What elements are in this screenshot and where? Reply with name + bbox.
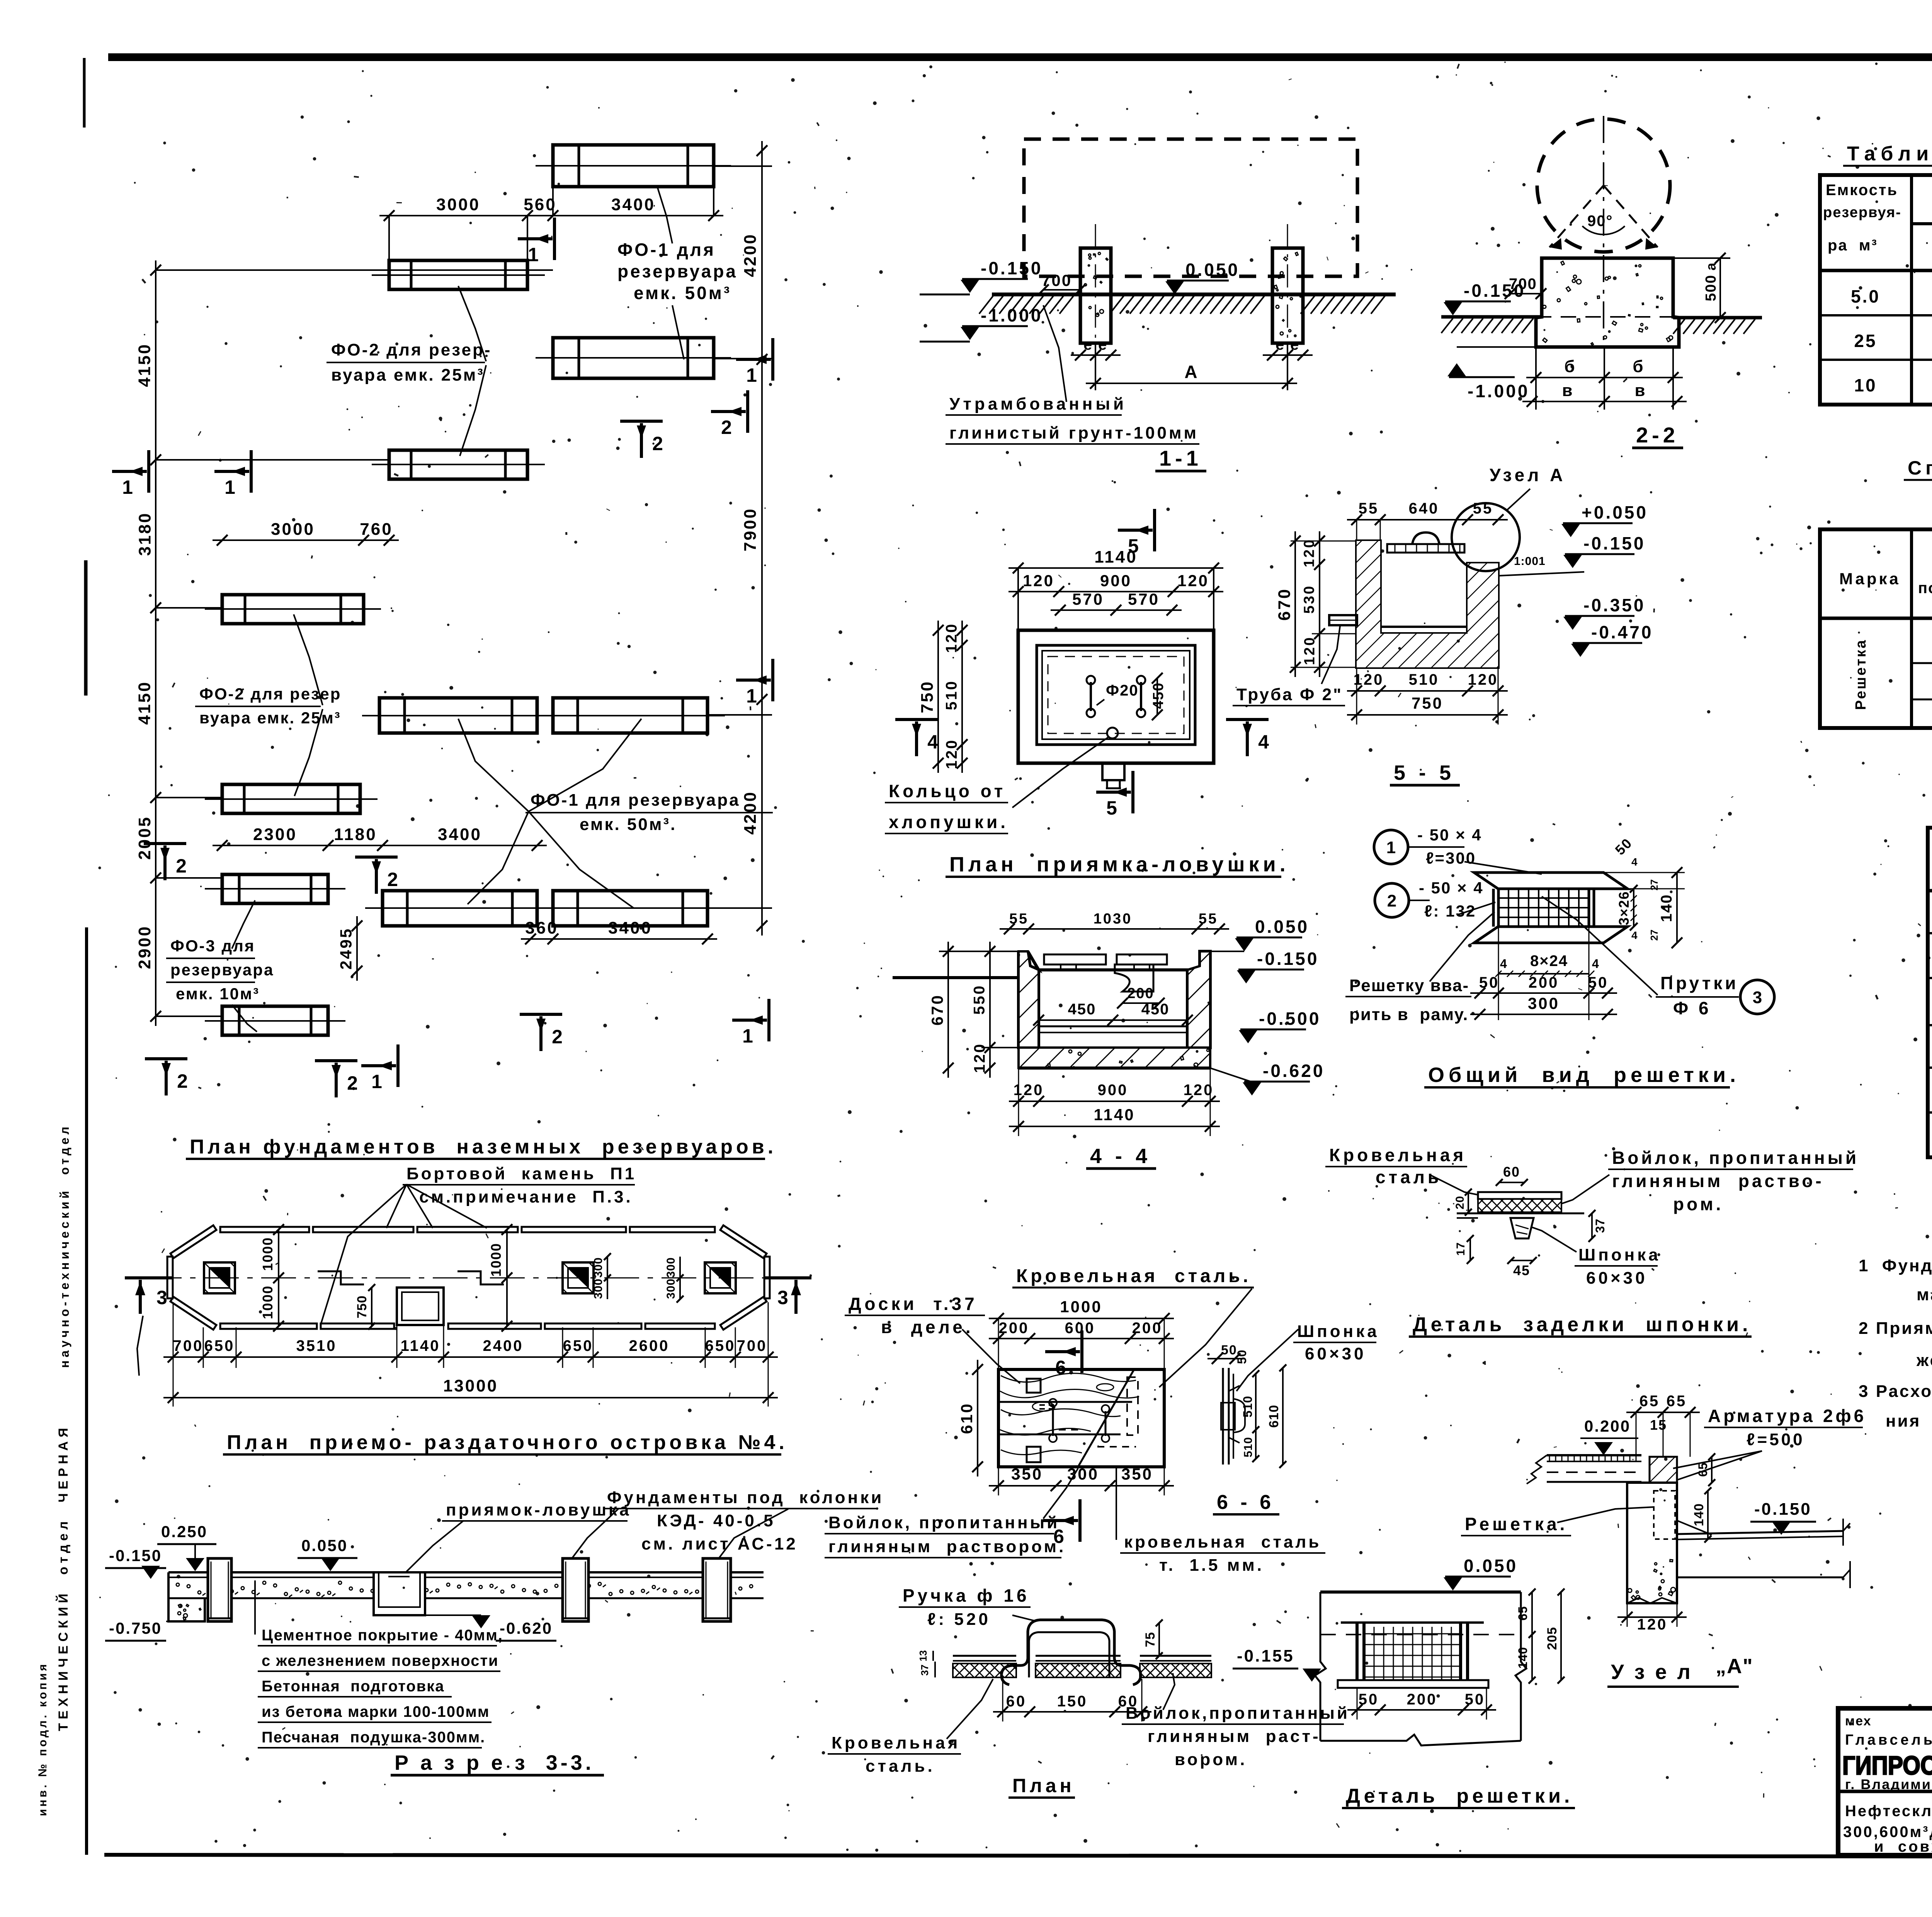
svg-text:ГИПРОСЕЛЬХОЗПРОМ: ГИПРОСЕЛЬХОЗПРОМ	[1842, 1751, 1932, 1780]
svg-text:емк. 50м³: емк. 50м³	[634, 283, 731, 303]
svg-text:900: 900	[1100, 572, 1132, 590]
svg-text:205: 205	[1545, 1627, 1560, 1650]
svg-text:3000: 3000	[271, 520, 315, 539]
svg-text:3: 3	[777, 1287, 788, 1308]
svg-text:Ручка ф 16: Ручка ф 16	[903, 1585, 1030, 1606]
svg-text:б: б	[1564, 357, 1576, 376]
svg-text:1140: 1140	[401, 1337, 440, 1354]
svg-text:13000: 13000	[443, 1376, 498, 1395]
svg-text:мех: мех	[1845, 1714, 1872, 1728]
svg-text:120: 120	[943, 623, 960, 653]
svg-text:2400: 2400	[483, 1337, 524, 1354]
svg-text:Арматура 2ф6: Арматура 2ф6	[1708, 1406, 1866, 1426]
svg-text:530: 530	[1301, 585, 1318, 614]
svg-text:глиняным раствором.: глиняным раствором.	[828, 1537, 1066, 1556]
svg-text:6 - 6: 6 - 6	[1217, 1491, 1274, 1514]
svg-text:570: 570	[1128, 590, 1160, 608]
svg-text:45: 45	[1513, 1262, 1530, 1278]
svg-text:Решетку вва-: Решетку вва-	[1349, 976, 1469, 995]
svg-text:37: 37	[1593, 1218, 1607, 1233]
svg-text:5.0: 5.0	[1851, 286, 1880, 306]
svg-text:ФО-3 для: ФО-3 для	[170, 937, 255, 955]
svg-text:с железнением поверхности: с железнением поверхности	[262, 1652, 499, 1669]
svg-text:г. Владимир: г. Владимир	[1845, 1776, 1932, 1792]
svg-text:в деле.: в деле.	[881, 1317, 974, 1337]
svg-text:600: 600	[1065, 1320, 1095, 1337]
svg-text:560: 560	[524, 195, 556, 214]
svg-text:е: е	[1083, 336, 1092, 353]
svg-text:-0.150: -0.150	[1754, 1500, 1812, 1519]
svg-text:2: 2	[552, 1026, 563, 1048]
svg-text:-0.620: -0.620	[1263, 1061, 1325, 1081]
svg-text:0.050: 0.050	[1464, 1556, 1518, 1576]
svg-text:вором.: вором.	[1175, 1750, 1247, 1769]
svg-text:2300: 2300	[253, 825, 297, 844]
svg-text:1000: 1000	[488, 1243, 504, 1277]
svg-text:140: 140	[1516, 1647, 1530, 1669]
svg-text:120: 120	[1468, 671, 1498, 688]
svg-text:3000: 3000	[436, 195, 480, 214]
svg-text:13: 13	[917, 1650, 929, 1662]
svg-text:2: 2	[1387, 891, 1396, 910]
svg-text:200: 200	[1132, 1320, 1163, 1337]
svg-text:510: 510	[1242, 1437, 1255, 1457]
svg-text:1: 1	[746, 364, 757, 386]
svg-text:кровельная сталь: кровельная сталь	[1124, 1533, 1321, 1551]
svg-text:У з е л: У з е л	[1611, 1660, 1693, 1684]
svg-text:50: 50	[1465, 1691, 1485, 1708]
svg-text:Решетка: Решетка	[1853, 639, 1869, 710]
svg-text:емк. 50м³.: емк. 50м³.	[580, 815, 677, 834]
svg-text:120: 120	[1184, 1082, 1214, 1099]
svg-text:резервуара: резервуара	[170, 961, 274, 979]
svg-text:120: 120	[1177, 572, 1209, 590]
svg-text:8×24: 8×24	[1530, 953, 1568, 970]
svg-text:760: 760	[360, 520, 393, 539]
svg-text:2495: 2495	[337, 927, 355, 970]
svg-text:50: 50	[1479, 974, 1500, 991]
svg-text:2600: 2600	[629, 1337, 670, 1354]
svg-text:см. лист АС-12: см. лист АС-12	[641, 1534, 798, 1553]
svg-text:Бортовой камень П1: Бортовой камень П1	[406, 1164, 636, 1183]
svg-text:570: 570	[1072, 590, 1104, 608]
svg-text:Спецификация стали на одну: Спецификация стали на одну решетку.	[1908, 457, 1932, 479]
svg-text:60×30: 60×30	[1586, 1269, 1648, 1288]
svg-text:120: 120	[1637, 1616, 1668, 1633]
svg-text:-0.150: -0.150	[1257, 949, 1319, 969]
svg-text:е: е	[1276, 336, 1284, 353]
svg-text:50: 50	[1588, 974, 1609, 991]
svg-text:120: 120	[1023, 572, 1054, 590]
svg-text:-1.000: -1.000	[981, 305, 1043, 325]
svg-text:4150: 4150	[135, 343, 154, 387]
svg-text:из бетона марки 100-100мм: из бетона марки 100-100мм	[262, 1703, 490, 1720]
svg-text:200: 200	[999, 1320, 1029, 1337]
svg-text:750: 750	[1412, 694, 1443, 712]
svg-text:610: 610	[957, 1402, 976, 1434]
svg-text:Кровельная сталь.: Кровельная сталь.	[1016, 1266, 1251, 1286]
svg-text:650: 650	[563, 1337, 594, 1354]
svg-text:700: 700	[173, 1337, 204, 1354]
svg-text:ТЕХНИЧЕСКИЙ отдел ЧЕРНАЯ: ТЕХНИЧЕСКИЙ отдел ЧЕРНАЯ	[56, 1424, 71, 1731]
svg-text:120: 120	[1302, 636, 1318, 665]
svg-text:План: План	[1012, 1775, 1075, 1796]
svg-text:-0.155: -0.155	[1237, 1647, 1294, 1665]
svg-text:Узел А: Узел А	[1490, 465, 1566, 485]
svg-text:Труба Ф 2": Труба Ф 2"	[1236, 685, 1343, 704]
svg-text:Бетонная подготовка: Бетонная подготовка	[262, 1678, 444, 1695]
svg-text:3180: 3180	[136, 512, 155, 556]
svg-text:55: 55	[1009, 911, 1029, 927]
svg-text:300: 300	[592, 1278, 605, 1299]
svg-text:Войлок, пропитанный: Войлок, пропитанный	[828, 1513, 1060, 1532]
svg-text:610: 610	[1267, 1405, 1281, 1428]
svg-text:140: 140	[1692, 1503, 1706, 1526]
svg-text:ФО-2 для резер-: ФО-2 для резер-	[331, 340, 492, 359]
svg-text:и совхозов.: и совхозов.	[1874, 1838, 1932, 1855]
svg-text:глиняным раст-: глиняным раст-	[1148, 1727, 1321, 1746]
svg-text:А: А	[1184, 362, 1199, 382]
svg-text:4: 4	[1592, 957, 1599, 971]
svg-text:2900: 2900	[135, 925, 154, 969]
svg-text:3: 3	[1753, 988, 1762, 1007]
svg-text:-0.750: -0.750	[109, 1619, 162, 1637]
svg-text:4: 4	[1500, 957, 1507, 971]
svg-text:+0.050: +0.050	[1582, 502, 1648, 522]
svg-text:Войлок,пропитанный: Войлок,пропитанный	[1126, 1704, 1350, 1723]
svg-text:Нефтесклад емкостью: Нефтесклад емкостью	[1845, 1803, 1932, 1820]
svg-text:510: 510	[1409, 671, 1439, 688]
svg-text:Емкость: Емкость	[1826, 182, 1898, 199]
svg-text:5: 5	[1128, 535, 1139, 557]
svg-text:-0.500: -0.500	[1259, 1009, 1321, 1029]
svg-text:ния приемо- раздаточной пло: ния приемо- раздаточной площадки составл…	[1886, 1412, 1932, 1431]
svg-text:65: 65	[1696, 1462, 1710, 1477]
svg-text:1: 1	[528, 244, 539, 265]
svg-text:-0.150: -0.150	[109, 1546, 162, 1565]
svg-text:План фундаментов наземных ре: План фундаментов наземных резервуаров.	[190, 1136, 777, 1158]
svg-text:50: 50	[1235, 1349, 1249, 1364]
svg-text:6: 6	[1055, 1357, 1066, 1378]
svg-text:Кровельная: Кровельная	[832, 1733, 960, 1752]
svg-text:Шпонка: Шпонка	[1578, 1245, 1661, 1264]
svg-text:2: 2	[347, 1072, 358, 1094]
svg-text:Фундаменты под колонки: Фундаменты под колонки	[607, 1488, 884, 1507]
svg-text:0.050: 0.050	[301, 1536, 348, 1555]
svg-text:-0.350: -0.350	[1583, 595, 1645, 615]
svg-text:55: 55	[1199, 911, 1218, 927]
svg-text:е: е	[1098, 336, 1107, 353]
svg-text:в: в	[1562, 381, 1574, 400]
svg-text:а: а	[1703, 262, 1719, 270]
svg-text:50: 50	[1359, 1691, 1379, 1708]
svg-text:ФО-1 для резервуара: ФО-1 для резервуара	[531, 791, 740, 810]
svg-text:350: 350	[1011, 1465, 1043, 1483]
svg-text:КЭД- 40-0.5: КЭД- 40-0.5	[657, 1511, 776, 1530]
svg-text:Таблица: Таблица	[1847, 143, 1932, 165]
svg-text:-0.620: -0.620	[500, 1619, 553, 1637]
svg-text:750: 750	[355, 1295, 369, 1318]
svg-text:670: 670	[1275, 588, 1294, 621]
svg-text:е: е	[1290, 336, 1299, 353]
svg-text:1: 1	[742, 1025, 753, 1047]
svg-text:750: 750	[918, 680, 937, 713]
svg-text:90°: 90°	[1587, 213, 1613, 230]
svg-text:сталь.: сталь.	[866, 1757, 935, 1776]
svg-text:1000: 1000	[1060, 1298, 1102, 1316]
svg-text:3400: 3400	[611, 195, 655, 214]
svg-text:1030: 1030	[1094, 911, 1133, 927]
svg-text:640: 640	[1409, 500, 1439, 517]
svg-text:17: 17	[1454, 1242, 1467, 1255]
svg-text:4: 4	[1258, 731, 1269, 753]
svg-text:650: 650	[204, 1337, 235, 1354]
svg-text:Кольцо от: Кольцо от	[889, 781, 1006, 801]
svg-text:1:001: 1:001	[1514, 555, 1546, 568]
svg-text:65: 65	[1667, 1393, 1687, 1410]
svg-text:1180: 1180	[334, 825, 377, 844]
svg-text:- 50 × 4: - 50 × 4	[1419, 879, 1484, 897]
svg-text:-0.150: -0.150	[981, 258, 1043, 278]
svg-text:450: 450	[1068, 1001, 1096, 1018]
svg-text:10: 10	[1854, 375, 1877, 395]
svg-text:1140: 1140	[1094, 1106, 1135, 1124]
svg-text:140: 140	[1658, 894, 1675, 922]
svg-text:0.200: 0.200	[1584, 1417, 1631, 1435]
svg-text:железнением.: железнением.	[1916, 1351, 1932, 1370]
svg-text:1000: 1000	[260, 1237, 276, 1271]
svg-text:7900: 7900	[741, 507, 760, 551]
svg-text:120: 120	[1301, 538, 1318, 567]
svg-text:см.примечание П.3.: см.примечание П.3.	[419, 1187, 633, 1206]
svg-text:700: 700	[737, 1337, 767, 1354]
svg-text:ℓ=300: ℓ=300	[1426, 849, 1476, 867]
svg-text:Деталь решетки.: Деталь решетки.	[1346, 1785, 1573, 1807]
svg-text:1: 1	[746, 685, 757, 707]
svg-text:27: 27	[1648, 930, 1660, 941]
svg-text:в: в	[1634, 381, 1646, 400]
svg-text:резервуара: резервуара	[617, 261, 738, 281]
svg-text:60: 60	[1006, 1693, 1027, 1710]
svg-text:75: 75	[1143, 1632, 1158, 1647]
svg-text:3400: 3400	[608, 919, 652, 937]
svg-text:4: 4	[927, 731, 938, 753]
svg-text:5: 5	[1106, 797, 1117, 819]
svg-text:300: 300	[665, 1278, 677, 1299]
svg-text:4 - 4: 4 - 4	[1090, 1145, 1151, 1168]
svg-text:3: 3	[156, 1287, 167, 1308]
svg-text:550: 550	[971, 984, 988, 1015]
svg-text:2: 2	[387, 869, 398, 890]
svg-text:Войлок, пропитанный: Войлок, пропитанный	[1612, 1148, 1859, 1168]
svg-text:Общий вид решетки.: Общий вид решетки.	[1428, 1063, 1740, 1087]
svg-text:Р а з р е з 3-3.: Р а з р е з 3-3.	[395, 1751, 594, 1774]
svg-text:1: 1	[224, 476, 235, 498]
svg-text:Главсельстройпроект: Главсельстройпроект	[1845, 1732, 1932, 1748]
svg-text:65: 65	[1639, 1393, 1660, 1410]
svg-text:900: 900	[1098, 1082, 1128, 1099]
svg-text:4150: 4150	[135, 681, 154, 725]
svg-text:сталь: сталь	[1376, 1167, 1442, 1187]
svg-text:4: 4	[1631, 856, 1638, 868]
svg-text:марки- 150.: марки- 150.	[1917, 1285, 1932, 1304]
svg-text:ром.: ром.	[1673, 1194, 1723, 1214]
svg-text:3 Расход бортовых камней: 3 Расход бортовых камней П1 (ГОСТ 6665-6…	[1859, 1382, 1932, 1401]
svg-text:0.050: 0.050	[1255, 917, 1309, 937]
svg-text:инв. № подл. копия: инв. № подл. копия	[36, 1662, 49, 1816]
svg-text:Кровельная: Кровельная	[1329, 1145, 1466, 1165]
svg-text:0.250: 0.250	[161, 1522, 207, 1541]
svg-text:1: 1	[122, 476, 133, 498]
svg-text:научно-технический отдел: научно-технический отдел	[58, 1124, 71, 1368]
svg-text:т. 1.5 мм.: т. 1.5 мм.	[1159, 1556, 1264, 1575]
svg-text:ℓ: 520: ℓ: 520	[927, 1610, 991, 1629]
svg-text:15: 15	[1650, 1417, 1667, 1433]
svg-text:20: 20	[1454, 1196, 1466, 1209]
svg-text:200: 200	[1529, 974, 1559, 991]
svg-text:300: 300	[1067, 1465, 1099, 1483]
svg-text:План приямка-ловушки.: План приямка-ловушки.	[949, 853, 1289, 876]
svg-text:Ф 6: Ф 6	[1673, 998, 1711, 1018]
svg-text:вуара емк. 25м³: вуара емк. 25м³	[331, 366, 485, 384]
svg-text:300: 300	[592, 1257, 605, 1277]
svg-text:1000: 1000	[260, 1285, 276, 1319]
svg-text:ℓ=500: ℓ=500	[1747, 1430, 1805, 1449]
svg-text:2005: 2005	[135, 816, 154, 860]
svg-text:Решетка.: Решетка.	[1465, 1514, 1568, 1534]
svg-text:5 - 5: 5 - 5	[1394, 761, 1455, 784]
svg-text:Деталь заделки шпонки.: Деталь заделки шпонки.	[1413, 1313, 1752, 1336]
svg-text:650: 650	[705, 1337, 736, 1354]
svg-text:300: 300	[665, 1257, 677, 1277]
svg-text:2 Приямок- ловушка делается: 2 Приямок- ловушка делается из бетона ма…	[1859, 1319, 1932, 1338]
svg-text:150: 150	[1057, 1693, 1088, 1710]
svg-text:-0.150: -0.150	[1583, 533, 1645, 553]
svg-text:350: 350	[1121, 1465, 1153, 1483]
svg-text:ФО-1 для: ФО-1 для	[617, 240, 716, 260]
svg-text:0.050: 0.050	[1185, 260, 1240, 280]
svg-text:2: 2	[721, 417, 732, 438]
svg-text:1: 1	[371, 1071, 382, 1092]
svg-text:глиняным раство-: глиняным раство-	[1612, 1171, 1824, 1191]
svg-text:Утрамбованный: Утрамбованный	[949, 395, 1127, 413]
svg-text:Марка: Марка	[1839, 570, 1901, 588]
svg-text:Песчаная подушка-300мм.: Песчаная подушка-300мм.	[262, 1729, 485, 1746]
svg-text:120: 120	[943, 739, 960, 769]
svg-text:120: 120	[1014, 1082, 1044, 1099]
svg-text:-0.470: -0.470	[1591, 622, 1653, 642]
svg-text:2-2: 2-2	[1636, 423, 1679, 447]
svg-text:резервуя-: резервуя-	[1823, 204, 1901, 221]
svg-text:План приемо- раздаточного ост: План приемо- раздаточного островка №4.	[227, 1431, 788, 1454]
svg-text:37: 37	[919, 1665, 930, 1676]
svg-text:Шпонка: Шпонка	[1297, 1322, 1379, 1341]
svg-text:„А": „А"	[1716, 1655, 1753, 1678]
svg-text:3400: 3400	[438, 825, 482, 844]
svg-text:510: 510	[943, 680, 960, 710]
svg-text:приямок-ловушка: приямок-ловушка	[446, 1500, 631, 1519]
svg-text:200: 200	[1127, 985, 1154, 1002]
svg-text:Ф20: Ф20	[1106, 682, 1139, 699]
svg-text:25: 25	[1854, 331, 1877, 351]
svg-text:Доски т.37: Доски т.37	[849, 1294, 978, 1314]
svg-text:1-1: 1-1	[1159, 446, 1202, 470]
svg-text:3510: 3510	[296, 1337, 337, 1354]
svg-text:б: б	[1633, 357, 1645, 376]
svg-text:60: 60	[1503, 1164, 1520, 1180]
svg-text:450: 450	[1141, 1001, 1170, 1018]
svg-text:60×30: 60×30	[1305, 1344, 1366, 1363]
svg-text:55: 55	[1359, 500, 1379, 517]
svg-text:1: 1	[1386, 838, 1396, 857]
svg-text:200: 200	[1407, 1691, 1437, 1708]
svg-text:Цементное покрытие - 40мм,: Цементное покрытие - 40мм,	[262, 1627, 503, 1644]
svg-text:ра м³: ра м³	[1828, 237, 1878, 254]
svg-text:120: 120	[1354, 671, 1384, 688]
svg-text:55: 55	[1473, 500, 1493, 517]
svg-text:360: 360	[525, 919, 558, 937]
svg-text:510: 510	[1241, 1396, 1255, 1417]
svg-text:хлопушки.: хлопушки.	[889, 812, 1009, 832]
svg-text:2: 2	[176, 855, 187, 877]
svg-text:глинистый грунт-100мм: глинистый грунт-100мм	[949, 424, 1199, 442]
svg-text:рить в раму.: рить в раму.	[1349, 1005, 1468, 1024]
svg-text:4: 4	[1631, 929, 1638, 941]
svg-text:2: 2	[177, 1070, 188, 1092]
svg-text:500: 500	[1703, 274, 1719, 301]
svg-text:1 Фундаменты под оборудов: 1 Фундаменты под оборудование выполняютс…	[1859, 1256, 1932, 1275]
svg-text:670: 670	[928, 994, 946, 1026]
svg-text:позиц.: позиц.	[1918, 580, 1932, 597]
svg-text:300: 300	[1528, 994, 1560, 1012]
svg-text:емк. 10м³: емк. 10м³	[176, 985, 260, 1003]
svg-text:65: 65	[1516, 1606, 1530, 1621]
svg-text:450: 450	[1150, 682, 1167, 709]
svg-text:- 50 × 4: - 50 × 4	[1417, 826, 1482, 844]
svg-text:3×26: 3×26	[1616, 891, 1632, 925]
